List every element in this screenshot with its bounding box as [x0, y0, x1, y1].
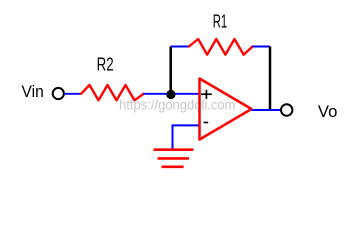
wire node to R1 (vertical): [169, 47, 172, 95]
wire feedback vertical to output: [269, 47, 272, 111]
pin + symbol: [201, 90, 212, 99]
op-amp U1: [200, 79, 252, 140]
wire R2 to op-amp + input: [144, 93, 199, 95]
terminal Vo: [281, 104, 292, 115]
resistor R1: [189, 39, 253, 55]
svg-text:R1: R1: [213, 12, 228, 32]
wire R1 right: [253, 46, 271, 48]
wire Vin to R2: [65, 93, 81, 95]
ground: [154, 150, 194, 167]
svg-text:Vo: Vo: [318, 103, 338, 121]
terminal Vin: [53, 88, 64, 99]
node junction dot: [166, 90, 175, 99]
wire to R1 left: [171, 46, 189, 48]
svg-text:Vin: Vin: [22, 83, 44, 101]
resistor R2: [81, 85, 144, 100]
pin - symbol: [204, 122, 209, 124]
svg-text:R2: R2: [97, 55, 114, 75]
wire op-amp output: [252, 109, 281, 111]
wire op-amp - input to ground: [173, 125, 199, 148]
